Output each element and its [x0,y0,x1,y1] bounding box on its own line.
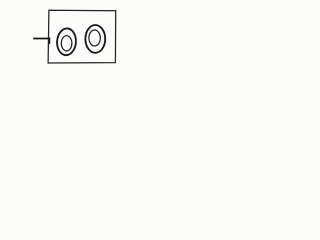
left socket outer ellipse [56,28,77,56]
left socket inner ellipse [61,36,72,51]
right socket inner ellipse [89,30,100,46]
outlet box [48,10,116,63]
right socket outer ellipse [85,25,105,53]
wire [33,38,49,40]
wire junction blob on box edge [48,37,50,44]
